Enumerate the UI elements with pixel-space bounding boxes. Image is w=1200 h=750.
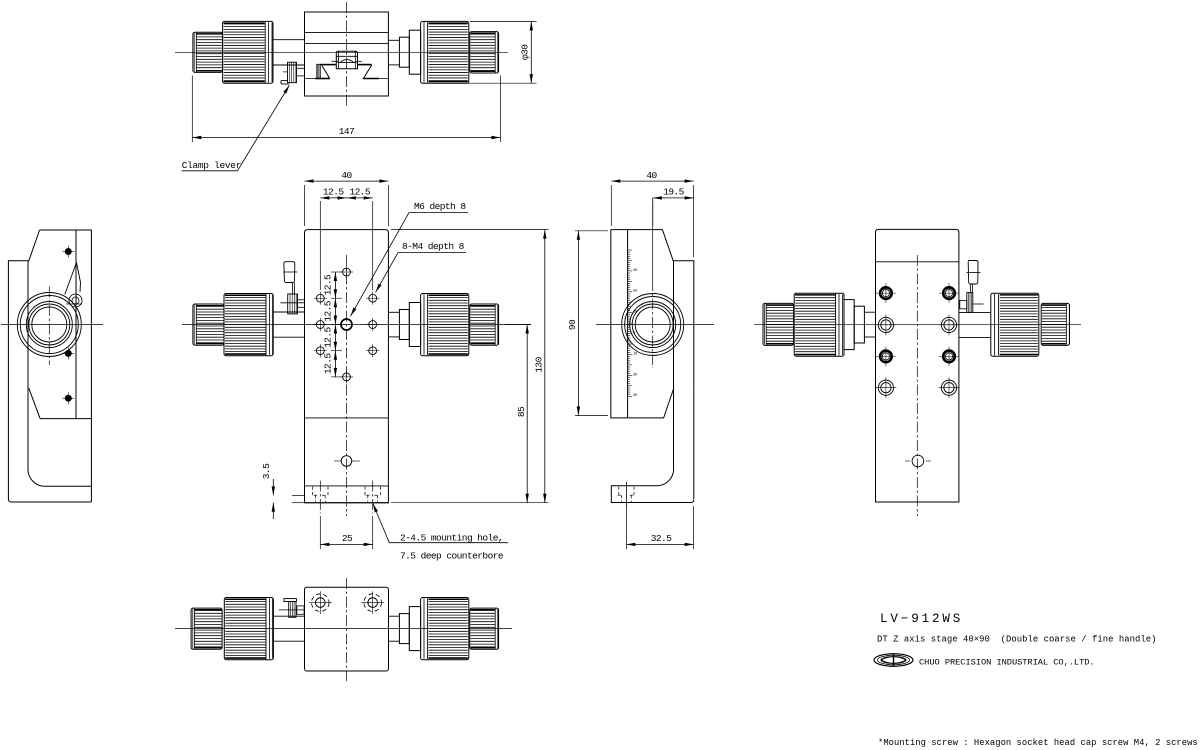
front view left shaft xyxy=(273,312,304,337)
dimension 40 front xyxy=(305,170,389,226)
dimension phi 30 xyxy=(468,21,537,83)
svg-text:8-M4 depth 8: 8-M4 depth 8 xyxy=(402,241,465,252)
bottom view counterbore holes xyxy=(309,591,384,614)
svg-text:40: 40 xyxy=(646,170,657,181)
svg-text:12.5: 12.5 xyxy=(349,186,370,197)
svg-text:90: 90 xyxy=(567,319,578,330)
middle view knob circles xyxy=(622,294,684,356)
dimension 90 xyxy=(567,231,608,416)
front view right shaft and collars xyxy=(388,294,424,354)
title model number xyxy=(880,612,963,626)
top view horizontal centerline xyxy=(175,51,508,53)
dimension 25 xyxy=(320,516,372,549)
back view body xyxy=(876,229,959,502)
front view M4 holes xyxy=(314,265,380,383)
back view screw heads bold xyxy=(876,283,959,366)
svg-text:M6 depth 8: M6 depth 8 xyxy=(414,201,466,212)
back view holes thin xyxy=(876,315,960,399)
dimension 130 xyxy=(391,230,549,503)
front view left fine handle xyxy=(193,304,224,345)
middle view vernier scale xyxy=(628,250,637,398)
dimension 147 xyxy=(192,76,500,143)
svg-text:2-4.5 mounting hole,: 2-4.5 mounting hole, xyxy=(400,533,503,544)
middle view centerlines xyxy=(596,198,714,368)
bottom view body xyxy=(305,587,389,671)
middle view body outline xyxy=(611,230,694,503)
bottom view right shaft and collars xyxy=(389,598,425,658)
svg-text:CHUO PRECISION INDUSTRIAL CO,.: CHUO PRECISION INDUSTRIAL CO,.LTD. xyxy=(919,658,1095,668)
front view horizontal centerline xyxy=(182,324,531,326)
back view clamp lever xyxy=(960,261,984,313)
svg-text:φ30: φ30 xyxy=(520,44,531,60)
dimension 19.5 middle xyxy=(653,186,694,226)
bottom view right fine handle xyxy=(470,608,499,649)
svg-text:50: 50 xyxy=(633,290,637,294)
company name xyxy=(919,658,1095,668)
dimension 12.5 chain vertical xyxy=(322,272,342,377)
bottom view left coarse handle xyxy=(224,598,273,660)
bottom view clamp lever xyxy=(279,599,305,618)
top view left dovetail mark xyxy=(315,64,335,78)
left view centerlines xyxy=(1,287,103,366)
svg-text:12.5: 12.5 xyxy=(322,326,333,347)
clamp lever label xyxy=(182,84,291,171)
front view body xyxy=(305,230,389,503)
svg-text:LV−912WS: LV−912WS xyxy=(880,612,963,626)
top view left fine handle xyxy=(193,32,223,72)
svg-text:*Mounting screw : Hexagon sock: *Mounting screw : Hexagon socket head ca… xyxy=(878,738,1198,748)
svg-text:19.5: 19.5 xyxy=(663,186,684,197)
bottom view horizontal centerline xyxy=(175,628,512,630)
svg-text:85: 85 xyxy=(516,406,527,417)
bottom view left fine handle xyxy=(191,608,222,649)
title description xyxy=(877,635,1157,645)
svg-text:3.5: 3.5 xyxy=(261,463,272,479)
label M6 depth 8 xyxy=(349,201,468,317)
bottom view left shaft xyxy=(273,616,304,641)
svg-text:12.5: 12.5 xyxy=(322,274,333,295)
front view clamp lever xyxy=(280,262,304,314)
front view right coarse handle xyxy=(421,294,469,356)
svg-text:30: 30 xyxy=(633,394,637,398)
dimension 32.5 xyxy=(626,506,693,549)
left view clamp lever side xyxy=(65,263,82,308)
left view screw heads xyxy=(62,246,74,405)
front view counterbore hole xyxy=(334,456,360,467)
svg-text:Clamp lever: Clamp lever xyxy=(182,160,241,171)
svg-text:DT Z axis stage 40×90 (Double: DT Z axis stage 40×90 (Double coarse / f… xyxy=(877,635,1157,645)
footnote mounting screw xyxy=(878,738,1198,748)
svg-text:12.5: 12.5 xyxy=(322,300,333,321)
bottom view centerline vertical xyxy=(346,578,348,681)
top view right shaft and collars xyxy=(388,22,424,82)
top view centerline vertical xyxy=(346,2,348,106)
back view horizontal centerline xyxy=(754,324,1081,326)
back view left fine handle xyxy=(763,303,794,345)
svg-text:40: 40 xyxy=(341,170,352,181)
front view right fine handle xyxy=(470,304,499,345)
left view knob circles xyxy=(17,293,81,357)
top view center clamp screw xyxy=(331,51,361,69)
company logo xyxy=(874,654,913,667)
back view left coarse handle xyxy=(794,293,844,356)
svg-text:12.5: 12.5 xyxy=(322,353,333,374)
svg-text:7.5 deep counterbore: 7.5 deep counterbore xyxy=(400,551,504,562)
label 8-M4 depth 8 xyxy=(374,241,466,293)
svg-text:40: 40 xyxy=(633,269,637,273)
top view clamp lever part xyxy=(281,62,305,84)
bottom view right coarse handle xyxy=(421,598,469,660)
back view right coarse handle xyxy=(991,293,1039,356)
front view bottom hidden counterbores xyxy=(313,481,381,514)
svg-text:32.5: 32.5 xyxy=(651,533,672,544)
dimension 85 xyxy=(505,325,531,503)
left view body outline xyxy=(8,230,91,502)
top view right dovetail mark xyxy=(358,65,379,79)
front view centerline vertical xyxy=(346,255,348,516)
top view left shaft xyxy=(273,40,305,65)
dimension 40 middle xyxy=(611,170,693,257)
label mounting hole xyxy=(371,503,508,562)
top view body xyxy=(305,12,389,96)
back view left collars xyxy=(844,300,876,350)
top view right fine handle xyxy=(470,32,499,73)
middle view foot hidden holes xyxy=(618,482,636,508)
svg-text:20: 20 xyxy=(633,373,637,377)
back view right fine handle xyxy=(1041,303,1069,345)
back view counterbore hole xyxy=(905,455,931,467)
front view left coarse handle xyxy=(224,294,273,356)
front view M6 hole xyxy=(341,319,352,330)
svg-text:25: 25 xyxy=(342,533,353,544)
svg-text:12.5: 12.5 xyxy=(323,186,344,197)
dimension 12.5 12.5 front xyxy=(320,186,372,290)
svg-text:147: 147 xyxy=(339,126,354,137)
svg-text:10: 10 xyxy=(633,352,637,356)
svg-text:130: 130 xyxy=(534,356,545,372)
top view right coarse handle xyxy=(421,21,469,83)
back view centerline vertical xyxy=(916,255,918,516)
dimension 3.5 xyxy=(261,463,305,519)
top view left coarse handle xyxy=(223,21,273,83)
back view right shaft xyxy=(959,312,990,337)
